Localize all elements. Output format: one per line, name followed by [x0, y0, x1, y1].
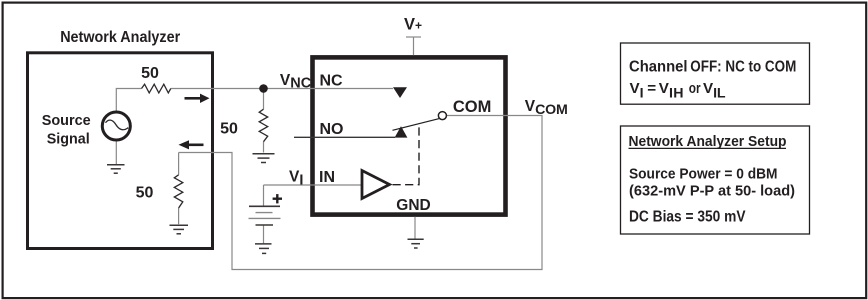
svg-text:Channel: Channel [629, 58, 688, 75]
svg-text:OFF: NC to COM: OFF: NC to COM [690, 58, 796, 75]
svg-text:Source Power = 0 dBM: Source Power = 0 dBM [629, 166, 778, 183]
svg-text:50: 50 [136, 185, 154, 202]
svg-text:50: 50 [220, 121, 238, 138]
svg-text:VNC: VNC [280, 72, 312, 92]
svg-text:GND: GND [396, 197, 430, 214]
svg-text:IN: IN [319, 169, 335, 186]
svg-text:Network Analyzer Setup: Network Analyzer Setup [629, 133, 787, 150]
svg-text:DC Bias = 350 mV: DC Bias = 350 mV [629, 208, 746, 225]
svg-text:V+: V+ [404, 15, 422, 33]
svg-text:50: 50 [141, 65, 159, 82]
svg-text:Signal: Signal [47, 131, 90, 148]
svg-text:NO: NO [320, 121, 344, 138]
svg-text:=: = [647, 80, 656, 97]
svg-text:Network Analyzer: Network Analyzer [60, 29, 180, 46]
svg-text:(632-mV P-P at 50- load): (632-mV P-P at 50- load) [629, 183, 795, 200]
svg-text:or: or [689, 80, 701, 97]
svg-text:Source: Source [42, 112, 91, 129]
svg-text:NC: NC [320, 73, 344, 90]
svg-text:COM: COM [453, 98, 492, 116]
